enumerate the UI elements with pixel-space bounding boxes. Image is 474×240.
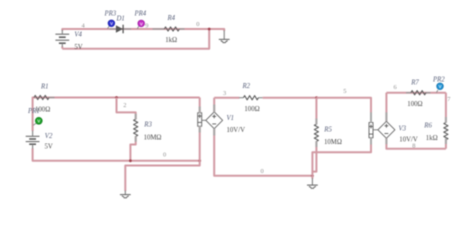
resistor R4 [153,28,165,30]
svg-text:R1: R1 [40,83,49,90]
resistor R3 branch [117,98,136,120]
resistor R6 pin stubs [445,117,447,144]
svg-text:PR3: PR3 [104,11,117,18]
bottom wire right loop [386,138,446,148]
svg-text:2: 2 [123,102,126,109]
probe PR3 [107,26,109,29]
svg-text:V4: V4 [74,31,82,38]
battery V2 [26,136,40,144]
svg-text:R7: R7 [410,80,419,87]
wire bottom return [62,29,209,49]
resistor R5 pin stubs [315,119,317,148]
svg-text:8: 8 [412,143,415,150]
svg-text:0: 0 [196,21,199,28]
svg-text:100Ω: 100Ω [244,106,259,113]
probe PR1 [33,123,36,125]
wire R2 to node5 [263,97,317,99]
V1 sensing port pin stubs [199,107,201,133]
op diamond V1 top lead [213,98,215,112]
junction mid ground [311,174,314,177]
junction node2 top [115,96,118,99]
V1 diamond pin stubs [213,105,215,136]
junction node 0 [208,28,211,31]
resistor R6 [444,123,448,140]
wire to ground [209,29,224,31]
resistor R7 [406,92,411,94]
svg-text:1kΩ: 1kΩ [165,37,177,44]
svg-text:0: 0 [261,168,264,175]
resistor R3 pin stubs [135,114,137,142]
V3 sensing port pin stubs [370,112,372,144]
sensing port V1 top lead [199,98,201,113]
svg-text:R2: R2 [242,83,251,90]
ground (bottom left) [120,191,131,198]
battery V2 pin stubs [32,131,34,149]
svg-text:V2: V2 [45,133,53,140]
ground (middle) [311,176,313,179]
svg-text:100Ω: 100Ω [407,101,422,108]
probe PR2 [436,90,438,93]
diode D1 [110,28,117,30]
probe PR4 [137,26,139,29]
svg-text:10V/V: 10V/V [227,127,246,134]
svg-text:9: 9 [145,22,148,29]
battery V4 [55,34,69,43]
junction bottom R3 [129,159,132,162]
V1 bottom rail [214,129,312,176]
svg-text:5V: 5V [45,144,53,151]
svg-text:10MΩ: 10MΩ [144,134,162,141]
op diamond V1 [206,112,223,129]
junction node 5 [315,96,318,99]
svg-text:100Ω: 100Ω [35,107,50,114]
svg-text:1kΩ: 1kΩ [426,135,438,142]
wire top rail [62,29,209,31]
svg-text:0: 0 [163,151,166,158]
svg-text:5: 5 [343,88,346,95]
resistor R2 [239,97,243,99]
svg-text:R5: R5 [323,126,332,133]
battery V4 pin stubs [61,30,63,47]
svg-text:R4: R4 [167,15,176,22]
svg-text:PR2: PR2 [432,77,445,84]
junction bottom right [198,159,201,162]
wire V1 to R2 [214,97,239,99]
wire left loop bottom [33,148,200,160]
top wire right loop [386,92,446,94]
svg-text:5V: 5V [74,44,82,51]
op diamond V3 [378,121,395,138]
svg-text:V3: V3 [399,126,407,133]
svg-text:R6: R6 [423,122,432,129]
svg-text:6: 6 [394,84,397,91]
svg-text:PR4: PR4 [134,11,147,18]
svg-text:3: 3 [223,90,226,97]
sensing port V1 [198,113,202,126]
svg-text:D1: D1 [116,15,125,22]
wire node5 to V3 sense [316,98,371,123]
resistor R1 [34,95,49,99]
right wire down [445,93,447,123]
wire left loop top [33,98,200,132]
wire battery bottom stem [61,47,63,49]
V3 diamond pin stubs [385,112,387,144]
ground (top right) [219,30,230,42]
svg-text:V1: V1 [227,115,235,122]
sensing port V3 [369,123,373,138]
ground branch left [125,161,199,191]
op diamond V3 top lead [385,93,387,122]
svg-text:10MΩ: 10MΩ [324,139,342,146]
svg-text:R3: R3 [143,121,152,128]
